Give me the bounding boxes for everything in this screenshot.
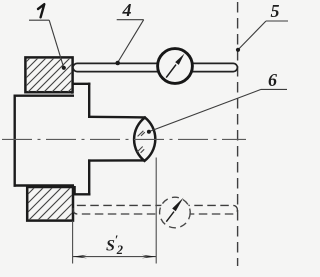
label 4 shelf line: [117, 19, 144, 21]
small cylinder bottom edge: [89, 159, 143, 162]
lens hatch marks: [137, 131, 145, 153]
dimension arrowhead left: [73, 255, 87, 259]
phantom dial indicator (dashed): [160, 197, 191, 228]
big cylinder bottom edge: [15, 184, 73, 186]
rod 4 (indicator stem, solid stadium): [73, 63, 237, 71]
bottom jaw block: [0, 181, 113, 223]
top jaw block 1: [0, 54, 106, 96]
leader line 1: [49, 20, 64, 68]
needle tip of top indicator: [175, 54, 184, 65]
leader dot 6: [147, 130, 151, 134]
label 5 shelf line: [266, 20, 288, 22]
flange bottom edge: [75, 193, 90, 195]
dimension arrowhead right: [142, 255, 156, 259]
svg-text:S: S: [106, 238, 115, 255]
bottom jaw hatching: [0, 181, 113, 223]
extension line left: [72, 221, 74, 264]
svg-text:4: 4: [122, 0, 132, 20]
big cylinder top edge: [15, 94, 73, 96]
needle of phantom indicator: [166, 212, 174, 222]
big cylinder left edge: [13, 96, 15, 186]
dial indicator (solid): [158, 49, 193, 84]
dimension line S'2: [73, 256, 157, 258]
center line (horizontal dash-dot): [2, 138, 246, 140]
label 1 shelf line: [29, 19, 49, 21]
leader dot 5: [236, 48, 240, 52]
needle tip of phantom indicator: [172, 198, 183, 212]
svg-text:5: 5: [271, 1, 280, 21]
flange right edge upper: [88, 84, 90, 117]
leader line 5: [238, 21, 266, 50]
flange left top stub: [71, 84, 73, 93]
flange top edge: [72, 83, 89, 85]
small cylinder top edge: [89, 116, 144, 119]
phantom rod (dashed stadium, lower position): [73, 205, 237, 214]
svg-text:6: 6: [268, 70, 277, 90]
flange left bottom stub: [73, 187, 75, 194]
flange right edge lower: [88, 161, 90, 195]
spherical lens 6: [134, 118, 155, 161]
leader line 6: [149, 89, 261, 131]
leader dot 1: [62, 66, 66, 70]
extension line right: [155, 158, 157, 264]
label digit 1: [38, 4, 44, 17]
label 6 shelf line: [261, 88, 287, 90]
top jaw hatching: [0, 54, 106, 96]
needle of top indicator: [166, 65, 176, 78]
leader line 4: [118, 20, 144, 63]
leader dot 4: [115, 61, 120, 66]
part body outline: [15, 84, 145, 195]
axis line 5 (vertical dashed): [237, 2, 239, 266]
svg-text:2: 2: [116, 243, 123, 257]
